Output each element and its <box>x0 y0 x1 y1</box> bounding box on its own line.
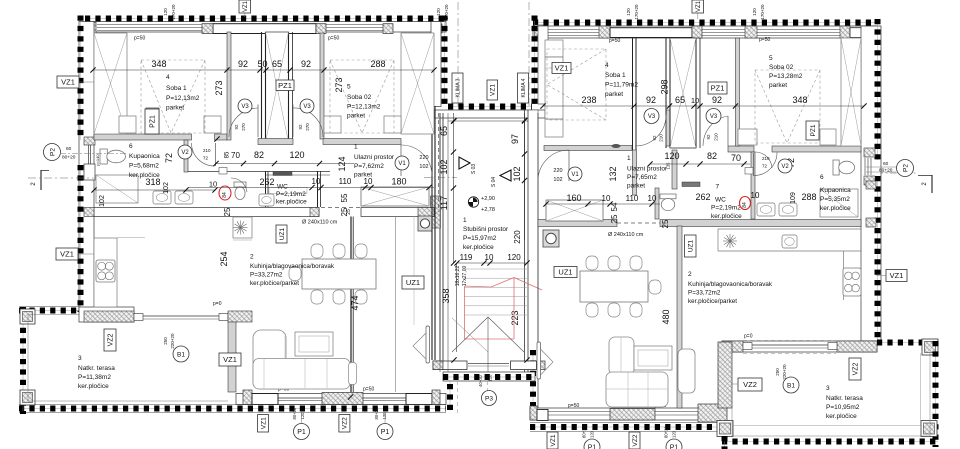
right dining wall <box>677 226 682 408</box>
right top jambs <box>535 25 877 38</box>
svg-text:P=5,35m2: P=5,35m2 <box>820 196 850 203</box>
right dining table <box>580 271 648 302</box>
svg-text:210: 210 <box>659 134 664 142</box>
svg-text:P=15,97m2: P=15,97m2 <box>463 235 497 242</box>
dims 55 25 <box>340 193 349 216</box>
svg-text:92: 92 <box>238 59 248 69</box>
right Soba1 nightstands <box>545 40 563 137</box>
left west wall checker lower <box>80 165 82 312</box>
svg-text:P2: P2 <box>903 164 910 172</box>
svg-text:7: 7 <box>716 184 720 191</box>
right kitchen sink <box>782 235 797 248</box>
svg-text:parket: parket <box>769 82 787 89</box>
svg-text:WC: WC <box>715 197 726 204</box>
bottom tiny dims 2 <box>374 407 387 419</box>
P1 circle right 2 <box>666 439 682 449</box>
stair treads <box>464 269 527 315</box>
svg-text:348: 348 <box>792 95 807 105</box>
svg-text:119: 119 <box>460 253 473 262</box>
svg-text:+2,78: +2,78 <box>481 207 495 213</box>
p=50 label top left <box>134 36 145 42</box>
right Soba1 bed <box>545 57 563 119</box>
svg-text:220: 220 <box>553 168 562 174</box>
svg-text:V3: V3 <box>241 104 249 110</box>
right east checker lower <box>877 176 879 341</box>
svg-text:270: 270 <box>241 123 246 131</box>
kitchen west counter <box>84 208 145 308</box>
svg-text:110: 110 <box>339 177 352 186</box>
svg-text:+2,90: +2,90 <box>481 196 495 202</box>
svg-text:10: 10 <box>485 253 494 262</box>
svg-text:UZ1: UZ1 <box>558 268 572 277</box>
svg-text:ker.pločice: ker.pločice <box>711 213 742 220</box>
coffee table <box>295 332 333 356</box>
svg-text:474: 474 <box>350 295 360 310</box>
svg-text:4: 4 <box>166 74 170 81</box>
svg-text:10: 10 <box>312 177 321 186</box>
p=0 label right <box>744 334 753 340</box>
svg-text:Soba 02: Soba 02 <box>769 64 794 71</box>
right unit east wall body <box>861 26 881 341</box>
VZ1 rot top right <box>692 0 704 19</box>
svg-text:10: 10 <box>691 96 699 105</box>
right coffee table <box>634 346 672 370</box>
P3 circle <box>482 391 497 406</box>
right dining chairs <box>586 256 661 317</box>
svg-text:18x16,22: 18x16,22 <box>455 265 461 286</box>
svg-text:97: 97 <box>510 134 520 144</box>
right unit bottom checker <box>530 423 718 432</box>
right V1 circle <box>568 167 582 181</box>
svg-text:220: 220 <box>419 155 428 161</box>
svg-text:80+20: 80+20 <box>664 426 669 438</box>
B1 circle left <box>173 346 189 362</box>
svg-text:3: 3 <box>78 355 82 362</box>
V3 door arc 2 <box>293 105 323 138</box>
svg-text:VZ1: VZ1 <box>696 0 702 12</box>
svg-text:P=7,62m2: P=7,62m2 <box>354 163 384 170</box>
svg-text:VZ1: VZ1 <box>260 417 267 429</box>
VZ1 rot top left <box>239 0 251 17</box>
right terrace corner post NE <box>922 339 938 355</box>
TV left <box>413 326 430 363</box>
svg-text:220+20: 220+20 <box>170 333 175 349</box>
right terrace bottom checker <box>722 441 938 443</box>
hall dims2 <box>188 177 434 191</box>
svg-text:17x27,00: 17x27,00 <box>462 265 468 286</box>
right V2 arc <box>745 153 777 177</box>
dim 220 stair <box>513 230 522 244</box>
svg-text:1: 1 <box>463 217 467 224</box>
svg-text:120: 120 <box>672 430 677 438</box>
svg-text:VZ2: VZ2 <box>743 380 757 389</box>
svg-text:72: 72 <box>203 156 209 161</box>
svg-text:40+20: 40+20 <box>478 374 483 386</box>
svg-text:P=11,79m2: P=11,79m2 <box>605 82 638 89</box>
dim 223 <box>510 310 520 325</box>
stair red outline <box>465 278 543 340</box>
svg-text:P1: P1 <box>381 429 390 436</box>
V3 door arc 1 <box>229 105 258 138</box>
svg-text:VZ1: VZ1 <box>61 78 75 87</box>
svg-text:210: 210 <box>203 148 211 153</box>
boiler left <box>418 216 432 231</box>
dining chairs <box>289 244 367 304</box>
svg-text:parket: parket <box>605 91 623 98</box>
svg-text:50: 50 <box>257 59 267 69</box>
svg-text:ker.pločice: ker.pločice <box>463 244 494 251</box>
svg-text:V1: V1 <box>398 161 406 167</box>
svg-text:P=5,68m2: P=5,68m2 <box>129 163 159 170</box>
svg-text:ker.pločice/parket: ker.pločice/parket <box>250 280 299 287</box>
svg-text:VZ2: VZ2 <box>853 362 860 375</box>
right bath text <box>820 187 851 212</box>
svg-text:92: 92 <box>712 95 722 105</box>
PZ1 label central <box>276 80 294 91</box>
right east window jambs <box>864 148 876 227</box>
stair bottom wall stubs <box>433 357 545 369</box>
bath sinks <box>153 191 193 204</box>
right dim row <box>540 95 866 109</box>
svg-text:P=10,95m2: P=10,95m2 <box>826 404 860 411</box>
svg-text:PZ1: PZ1 <box>278 81 292 90</box>
svg-text:ker.pločice/parket: ker.pločice/parket <box>688 298 737 305</box>
svg-text:PZ1: PZ1 <box>150 115 157 128</box>
svg-text:p=50: p=50 <box>759 37 770 43</box>
right dim 480 <box>661 309 671 324</box>
right PZ1 label <box>708 82 727 94</box>
stair block top exterior wall <box>434 107 545 124</box>
dim 358 <box>441 264 457 352</box>
svg-text:117: 117 <box>439 196 449 210</box>
svg-text:UZ1: UZ1 <box>279 227 286 240</box>
left unit top wall window Soba1 <box>97 25 202 31</box>
right V1 dims <box>553 168 562 183</box>
svg-text:VZ2: VZ2 <box>342 417 349 429</box>
right terrace text <box>826 385 863 420</box>
left unit bottom exterior wall body <box>236 394 446 405</box>
svg-text:92: 92 <box>298 124 303 130</box>
svg-text:S 03: S 03 <box>471 164 477 175</box>
V3 circle 1 <box>238 99 252 113</box>
entry text <box>354 144 395 179</box>
left unit top exterior wall body <box>85 22 446 33</box>
stair dim row <box>454 253 529 266</box>
svg-text:P2: P2 <box>50 148 57 156</box>
svg-text:5: 5 <box>347 84 351 91</box>
left terrace corner post top <box>20 309 35 324</box>
left unit east inner wall <box>432 106 448 372</box>
niche centerline 2 <box>528 2 530 108</box>
VZ2 rot label terrace <box>104 329 116 351</box>
dim 254 <box>219 251 229 266</box>
right B1 dims <box>775 364 787 380</box>
right Soba1 dashed projection <box>547 49 606 120</box>
dim 273 left <box>214 80 224 95</box>
WC toilet <box>234 182 307 200</box>
stair block bottom wall <box>443 372 535 381</box>
svg-text:p=50: p=50 <box>328 36 339 42</box>
kitchen island <box>233 217 252 240</box>
svg-text:160: 160 <box>566 193 581 203</box>
svg-text:V3: V3 <box>710 114 718 120</box>
svg-text:70: 70 <box>231 151 240 160</box>
svg-text:2: 2 <box>250 254 254 261</box>
svg-text:238: 238 <box>581 95 596 105</box>
WC text <box>259 177 307 206</box>
svg-text:250: 250 <box>163 337 168 345</box>
VZ1 label right east <box>876 270 907 282</box>
S03 triangle <box>459 157 477 174</box>
UZ1 label left <box>402 276 424 289</box>
svg-text:1: 1 <box>627 155 631 162</box>
svg-text:p=0: p=0 <box>744 334 753 340</box>
KLIMA4 label <box>518 73 529 103</box>
svg-text:parket: parket <box>347 113 365 120</box>
svg-text:84: 84 <box>742 202 748 208</box>
terrace text left <box>78 355 115 390</box>
svg-text:92: 92 <box>706 134 711 140</box>
section mark left <box>31 170 49 190</box>
svg-text:P=11,38m2: P=11,38m2 <box>78 374 111 381</box>
top tiny dims 2 <box>436 4 449 20</box>
right bath dims <box>731 153 817 204</box>
svg-text:60: 60 <box>66 146 72 152</box>
Soba2 wardrobe <box>401 33 434 134</box>
svg-text:WC: WC <box>277 184 288 191</box>
p=50 labels right <box>609 37 770 44</box>
svg-text:120: 120 <box>626 8 631 16</box>
dim 117 stair <box>439 196 449 210</box>
right hall radiator <box>682 182 700 187</box>
svg-text:P=2,19m2: P=2,19m2 <box>276 191 306 198</box>
svg-text:2: 2 <box>688 271 692 278</box>
entry-stair dashed boundary <box>424 113 918 212</box>
V1 circle <box>395 156 409 170</box>
dining table <box>302 259 376 289</box>
svg-text:70: 70 <box>731 153 741 163</box>
dashed centerline left <box>28 177 94 179</box>
right B1 circle <box>783 377 799 393</box>
svg-text:120: 120 <box>436 8 441 16</box>
svg-text:92: 92 <box>234 124 239 130</box>
stair break lines <box>452 317 524 372</box>
svg-text:Natkr. terasa: Natkr. terasa <box>826 395 863 402</box>
door leaf dims 1 <box>234 123 246 131</box>
svg-text:Ø 240x110 cm: Ø 240x110 cm <box>302 220 338 226</box>
VZ2 rot bottom right <box>629 432 640 449</box>
svg-text:6: 6 <box>820 174 824 181</box>
svg-text:120: 120 <box>163 8 168 16</box>
left kitchen bottom wall hatched <box>79 307 134 322</box>
right unit top wall body <box>533 26 876 38</box>
svg-text:Ø 240x110 cm: Ø 240x110 cm <box>608 232 644 238</box>
PZ1 rot label <box>145 109 159 134</box>
right Soba2 dashed projection <box>755 70 820 143</box>
svg-text:VZ1: VZ1 <box>243 0 249 12</box>
Soba2 text <box>347 84 381 120</box>
VZ1 label sofa <box>219 353 241 366</box>
right bath west wall <box>751 152 755 219</box>
svg-text:P1: P1 <box>588 445 597 449</box>
svg-text:120: 120 <box>300 412 305 420</box>
svg-text:120: 120 <box>590 430 595 438</box>
svg-text:92: 92 <box>646 95 656 105</box>
svg-text:25: 25 <box>661 219 670 228</box>
right V3 arc 2 <box>703 116 728 146</box>
right PZ1 rot label <box>806 121 819 140</box>
svg-text:80+20: 80+20 <box>374 407 379 419</box>
right kitchen stove <box>843 268 861 296</box>
svg-text:ker.pločice: ker.pločice <box>78 383 109 390</box>
checker rise to stair block <box>449 381 451 410</box>
bottom tiny right dims <box>582 426 677 438</box>
dim 273 right <box>334 77 344 92</box>
svg-text:180: 180 <box>391 177 406 187</box>
svg-text:6: 6 <box>129 143 133 150</box>
left dim row <box>90 59 436 73</box>
svg-text:120: 120 <box>488 374 493 382</box>
Soba1 dashed projection <box>141 60 205 133</box>
svg-text:80+20: 80+20 <box>582 426 587 438</box>
kitchen stove <box>96 260 115 282</box>
living text <box>250 254 335 288</box>
svg-text:10: 10 <box>209 180 217 189</box>
svg-text:P1: P1 <box>670 445 679 449</box>
svg-text:65: 65 <box>272 59 282 69</box>
right wall WC-east <box>655 150 677 219</box>
WC sink <box>259 194 274 206</box>
svg-text:270: 270 <box>305 123 310 131</box>
right bath sinks <box>757 203 797 216</box>
red circle 84 left <box>219 186 231 200</box>
boiler right <box>543 230 559 247</box>
svg-text:85: 85 <box>225 151 231 158</box>
p=0 label left <box>213 301 222 307</box>
bath dims <box>91 148 232 216</box>
svg-text:Soba 1: Soba 1 <box>605 72 626 79</box>
p=50 labels bottom <box>278 387 374 393</box>
dim 97 niche <box>510 113 527 240</box>
svg-text:82: 82 <box>707 151 717 161</box>
right east checker upper <box>877 19 879 160</box>
svg-text:KLIMA 4: KLIMA 4 <box>521 78 527 97</box>
svg-text:348: 348 <box>151 59 166 69</box>
svg-text:B1: B1 <box>787 382 795 389</box>
svg-text:109: 109 <box>790 192 797 204</box>
right bath num <box>820 174 824 181</box>
left west wall bathroom window <box>89 145 91 164</box>
svg-text:PZ1: PZ1 <box>810 124 817 136</box>
svg-text:VZ1: VZ1 <box>890 271 904 280</box>
svg-text:120: 120 <box>664 151 679 161</box>
right dim 132 <box>608 166 618 181</box>
svg-text:p=50: p=50 <box>363 387 374 393</box>
wall below terrace door <box>228 322 236 392</box>
right V2 circle <box>778 159 792 173</box>
right Soba1 east wall <box>633 38 637 195</box>
svg-text:Kupaonica: Kupaonica <box>129 153 160 160</box>
V3 circle 2 <box>300 99 314 113</box>
red circle right <box>740 197 751 210</box>
P2 circle right <box>866 160 914 177</box>
bath east wall <box>184 140 188 172</box>
right bath toilet <box>833 160 855 175</box>
svg-text:ker.pločice: ker.pločice <box>820 205 851 212</box>
table size label <box>302 220 338 226</box>
svg-text:p=50: p=50 <box>609 38 620 44</box>
right table label <box>608 232 644 238</box>
svg-text:65: 65 <box>439 126 449 136</box>
right sofa <box>606 337 695 407</box>
left bottom windows <box>278 398 406 401</box>
svg-text:210: 210 <box>762 156 770 161</box>
p=50 label top mid <box>328 36 339 42</box>
right terrace sliding door <box>743 343 837 350</box>
svg-text:124: 124 <box>337 156 347 171</box>
svg-text:B1: B1 <box>177 351 185 358</box>
hall dims <box>213 150 354 166</box>
svg-text:220: 220 <box>513 230 522 244</box>
left terrace inner outline <box>28 315 228 402</box>
top tiny dims 1 <box>163 4 176 20</box>
Soba1 nightstands <box>119 116 221 133</box>
P2 circle left <box>44 144 127 161</box>
left terrace west checker <box>22 307 24 414</box>
right terrace corner post SE <box>921 421 937 437</box>
svg-text:1: 1 <box>354 144 358 151</box>
P1 circle 1 <box>294 412 310 440</box>
VZ1 box right west <box>552 63 571 74</box>
svg-text:318: 318 <box>145 177 160 187</box>
svg-text:P=12,13m2: P=12,13m2 <box>166 95 200 102</box>
svg-text:210: 210 <box>714 133 719 141</box>
B1 dims left <box>163 333 175 349</box>
svg-text:P1: P1 <box>297 429 306 436</box>
svg-text:84: 84 <box>222 192 228 198</box>
svg-text:UZ1: UZ1 <box>406 278 420 287</box>
right unit west wall upper <box>535 16 549 105</box>
Soba1 wardrobe <box>94 33 127 134</box>
svg-text:VZ1: VZ1 <box>490 84 497 96</box>
right kitchen north wall <box>538 219 861 228</box>
svg-text:Soba 1: Soba 1 <box>166 85 187 92</box>
V2 circle <box>178 145 192 159</box>
VZ1 label west bottom <box>56 248 94 260</box>
svg-text:72: 72 <box>164 153 174 163</box>
right V1 arc <box>538 150 569 181</box>
niche centerline 1 <box>457 2 459 108</box>
top tiny dims 4 <box>752 4 765 20</box>
VZ1 rot niche <box>487 80 498 100</box>
right top wall window mid <box>692 26 745 38</box>
svg-text:Kuhinja/blagovaonica/boravak: Kuhinja/blagovaonica/boravak <box>688 281 773 288</box>
svg-text:170+20: 170+20 <box>444 4 449 20</box>
left unit east exterior wall to niche <box>431 16 445 107</box>
svg-text:220+20: 220+20 <box>782 364 787 380</box>
svg-text:p=140: p=140 <box>95 154 100 166</box>
right terrace top blocks <box>722 341 877 352</box>
right V3 arc 1 <box>635 115 666 146</box>
dim 474 <box>350 295 360 310</box>
svg-text:25: 25 <box>340 207 349 216</box>
right door leaf dims <box>652 133 719 142</box>
svg-text:V2: V2 <box>181 150 189 156</box>
left terrace top checker <box>19 307 79 311</box>
svg-text:358: 358 <box>441 288 451 303</box>
svg-text:10: 10 <box>751 191 760 200</box>
right living text <box>688 271 773 305</box>
